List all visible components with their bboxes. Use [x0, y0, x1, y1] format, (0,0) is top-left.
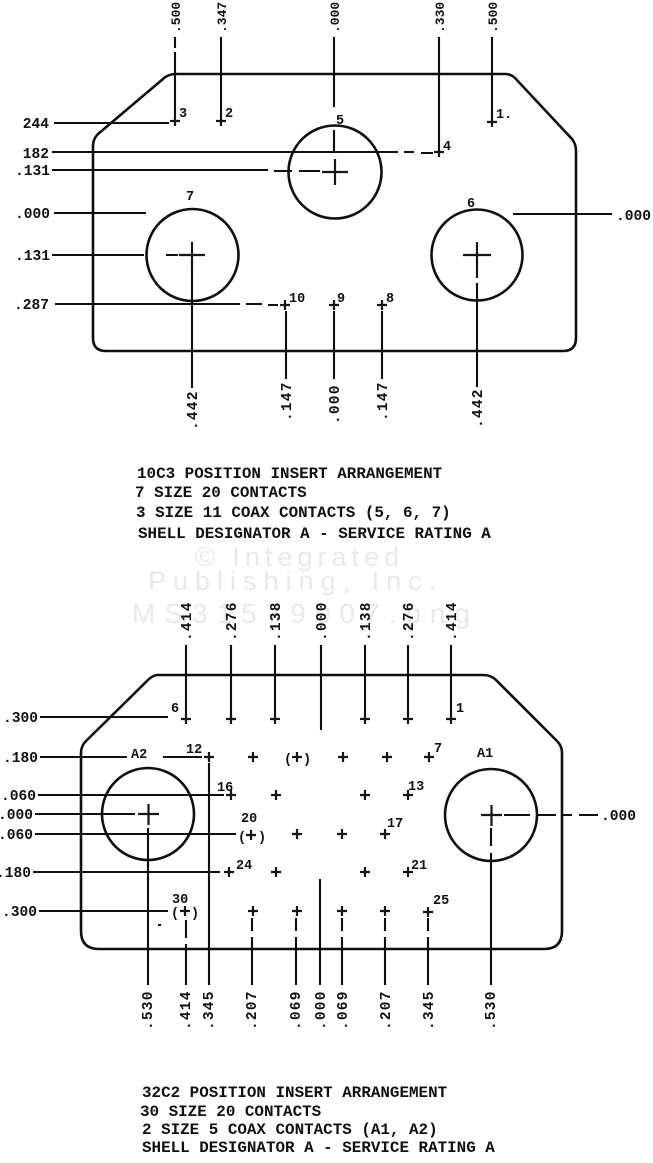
D1 contact 9 cross — [329, 300, 339, 310]
svg-text:6: 6 — [467, 197, 475, 212]
D1 bottom leader from circle 7 to .442 — [191, 268, 193, 388]
D1 bottom leader from contact 9 to .000 — [333, 311, 335, 379]
D1 left leader .287 to contact 10 — [55, 304, 278, 305]
svg-text:(: ( — [171, 907, 179, 922]
D1 contact 10 cross — [280, 300, 290, 310]
D2 bottom leader A1 to .530 — [490, 828, 492, 985]
D2 bottom leader A2 to .530 — [147, 828, 149, 985]
svg-text:.000: .000 — [0, 808, 33, 824]
D2 contact 8 cross — [382, 752, 392, 762]
svg-text:.500: .500 — [169, 2, 184, 33]
svg-text:.300: .300 — [2, 905, 37, 921]
svg-text:.180: .180 — [3, 751, 38, 767]
D2 contact 7 cross — [424, 752, 434, 762]
svg-text:(: ( — [284, 753, 292, 768]
svg-text:.069: .069 — [336, 990, 352, 1030]
svg-text:17: 17 — [387, 817, 403, 832]
stray scan dot — [158, 924, 161, 926]
D2 bottom leader .000 center — [319, 879, 321, 985]
svg-text:.000: .000 — [314, 990, 330, 1030]
svg-text:.530: .530 — [484, 990, 500, 1030]
svg-text:.287: .287 — [14, 298, 49, 314]
svg-text:9: 9 — [337, 292, 345, 307]
D1 bottom leader from contact 8 to .147 — [381, 311, 383, 379]
svg-text:8: 8 — [386, 292, 394, 307]
D2 contact 27 cross — [337, 906, 347, 916]
svg-text:.147: .147 — [280, 381, 296, 421]
D2 contact 21 cross — [403, 867, 413, 877]
svg-text:30 SIZE 20 CONTACTS: 30 SIZE 20 CONTACTS — [140, 1103, 322, 1121]
svg-text:.345: .345 — [422, 990, 438, 1030]
D1 contact 1 cross — [487, 117, 497, 127]
svg-text:7: 7 — [434, 742, 442, 757]
D1 top leader .000 center to circle 5 — [333, 37, 335, 153]
D2 contact 11 cross — [248, 752, 258, 762]
svg-text:.000: .000 — [616, 209, 651, 225]
svg-text:1.: 1. — [496, 108, 512, 123]
D2 contact 30 cross in parens — [180, 906, 190, 916]
svg-text:.147: .147 — [376, 381, 392, 421]
D1 top leader .500 left to contact 3 — [174, 37, 176, 116]
svg-text:.131: .131 — [15, 249, 50, 265]
svg-text:24: 24 — [236, 859, 252, 874]
D2 top leader .414 left — [185, 645, 187, 716]
svg-text:30: 30 — [172, 893, 188, 908]
D2 bottom leader contact 25 to .345 — [427, 918, 429, 985]
D2 contact 15 cross — [271, 790, 281, 800]
D1 right leader .000 from circle 6 — [513, 213, 612, 215]
D1 bottom leader from circle 6 to .442 — [476, 268, 478, 387]
D2 top leader .414 right — [450, 645, 452, 716]
svg-text:.347: .347 — [215, 2, 230, 33]
D1 shell outline — [93, 74, 576, 351]
D2 contact 9 cross — [338, 752, 348, 762]
D1 contact 8 cross — [377, 300, 387, 310]
D1 top leader .330 to contact 4 — [438, 37, 440, 147]
D2 left leader .060 upper — [38, 794, 224, 796]
D1 contact 2 cross — [216, 116, 226, 126]
svg-text:(: ( — [238, 831, 246, 846]
D2 contact 12 cross — [204, 752, 214, 762]
D2 coax A1 center cross — [481, 805, 502, 826]
svg-text:SHELL DESIGNATOR A - SERVICE R: SHELL DESIGNATOR A - SERVICE RATING A — [142, 1139, 495, 1157]
D2 contact 29 cross — [248, 906, 258, 916]
D2 contact 2 cross — [403, 714, 413, 724]
svg-text:.000: .000 — [15, 207, 50, 223]
D1 top leader .500 right to contact 1 — [491, 37, 493, 117]
D2 left leader .300 lower — [39, 910, 168, 912]
D2 contact 1 cross — [446, 714, 456, 724]
svg-text:3: 3 — [179, 107, 187, 122]
D1 left leader .131 to circle 7 center — [52, 254, 178, 256]
D1 coax contact 6 circle — [432, 210, 523, 301]
D2 bottom leader contact 30 to .414 — [185, 920, 187, 985]
D1 circle 6 center cross — [463, 242, 491, 268]
svg-text:.530: .530 — [141, 990, 157, 1030]
D2 contact 16 cross — [226, 790, 236, 800]
svg-text:.000: .000 — [328, 2, 343, 33]
D2 contact 13 cross — [403, 790, 413, 800]
svg-text:4: 4 — [443, 140, 451, 155]
D1 circle 7 center cross — [179, 242, 205, 268]
D2 contact 23 cross — [271, 867, 281, 877]
svg-text:5: 5 — [336, 114, 344, 129]
D1 contact 4 cross — [434, 147, 444, 157]
D1 left leader .131 to circle 5 center — [52, 170, 320, 171]
D2 coax A2 center cross — [138, 804, 159, 825]
svg-text:.000: .000 — [601, 809, 636, 825]
D2 top leader .276 left — [230, 645, 232, 716]
D2 contact 28 cross — [292, 906, 302, 916]
svg-text:.060: .060 — [1, 789, 36, 805]
D2 left leader .180 upper — [40, 756, 202, 758]
D2 coax contact A1 circle — [445, 769, 537, 861]
svg-text:3 SIZE 11 COAX CONTACTS (5, 6,: 3 SIZE 11 COAX CONTACTS (5, 6, 7) — [136, 504, 451, 522]
svg-text:): ) — [258, 831, 266, 846]
D2 contact 17 cross — [380, 829, 390, 839]
svg-text:.300: .300 — [3, 711, 38, 727]
svg-text:20: 20 — [241, 812, 257, 827]
svg-text:.207: .207 — [379, 990, 395, 1030]
svg-text:A2: A2 — [131, 748, 147, 763]
svg-text:7: 7 — [186, 190, 194, 205]
svg-text:182: 182 — [23, 147, 49, 163]
D2 bottom leader contact 28 to .069 — [295, 918, 297, 985]
svg-text:SHELL DESIGNATOR A - SERVICE R: SHELL DESIGNATOR A - SERVICE RATING A — [138, 525, 491, 543]
svg-text:.207: .207 — [245, 990, 261, 1030]
D1 coax contact 7 circle — [147, 209, 239, 301]
D1 coax contact 5 circle — [289, 126, 382, 219]
svg-text:): ) — [191, 907, 199, 922]
svg-text:2 SIZE 5 COAX CONTACTS (A1, A2: 2 SIZE 5 COAX CONTACTS (A1, A2) — [142, 1121, 438, 1139]
svg-text:25: 25 — [433, 894, 449, 909]
svg-text:.442: .442 — [186, 390, 202, 430]
D2 contact 19 cross — [292, 829, 302, 839]
svg-text:.500: .500 — [486, 2, 501, 33]
D1 circle 5 center cross — [322, 159, 348, 185]
D2 bottom leader contact 29 to .207 — [251, 918, 253, 985]
svg-text:A1: A1 — [477, 747, 493, 762]
D2 contact 22 cross — [360, 867, 370, 877]
svg-text:16: 16 — [217, 781, 233, 796]
D2 contact 24 cross — [224, 867, 234, 877]
D1 left leader .244 to contact 3 — [54, 122, 169, 124]
svg-text:.442: .442 — [471, 388, 487, 428]
svg-text:10: 10 — [289, 292, 305, 307]
D2 top leader .138 right — [364, 645, 366, 716]
D2 contact 6 cross — [181, 714, 191, 724]
D2 contact 26 cross — [380, 906, 390, 916]
D2 contact 18 cross — [337, 829, 347, 839]
svg-text:13: 13 — [408, 780, 424, 795]
svg-text:.138: .138 — [269, 601, 285, 641]
D2 contact 10 cross in parens — [292, 752, 302, 762]
svg-text:10C3 POSITION INSERT ARRANGEME: 10C3 POSITION INSERT ARRANGEMENT — [137, 465, 443, 483]
svg-text:.069: .069 — [289, 990, 305, 1030]
svg-text:.000: .000 — [328, 384, 344, 424]
svg-text:.414: .414 — [180, 601, 196, 641]
svg-text:244: 244 — [23, 117, 50, 133]
D2 contact 25 cross — [423, 907, 433, 917]
D2 contact 3 cross — [360, 714, 370, 724]
svg-text:.138: .138 — [359, 601, 375, 641]
D1 top leader .347 to contact 2 — [220, 37, 222, 116]
D2 contact 4 cross — [270, 714, 280, 724]
D2 right leader .000 from A1 — [504, 814, 598, 816]
D2 bottom leader contact 12 to .345 — [208, 763, 210, 985]
svg-text:7 SIZE 20 CONTACTS: 7 SIZE 20 CONTACTS — [135, 484, 307, 502]
D2 left leader .180 lower — [33, 871, 220, 873]
D1 bottom leader from contact 10 to .147 — [285, 311, 287, 379]
svg-text:.276: .276 — [402, 601, 418, 641]
D1 contact 3 cross — [170, 116, 180, 126]
D1 left leader .182 to contact 4 — [52, 152, 433, 153]
svg-text:.180: .180 — [0, 866, 31, 882]
svg-text:6: 6 — [171, 702, 179, 717]
svg-text:.345: .345 — [202, 990, 218, 1030]
D2 bottom leader contact 27 to .069 — [341, 918, 343, 985]
D2 coax contact A2 circle — [102, 768, 194, 860]
D2 contact 20 cross in parens — [246, 830, 256, 840]
svg-text:12: 12 — [186, 743, 202, 758]
svg-text:.060: .060 — [0, 828, 33, 844]
svg-text:Publishing, Inc.: Publishing, Inc. — [148, 566, 443, 596]
D2 top leader .138 left — [274, 645, 276, 716]
svg-text:21: 21 — [411, 859, 427, 874]
svg-text:.131: .131 — [15, 164, 50, 180]
svg-text:.330: .330 — [433, 2, 448, 33]
svg-text:32C2 POSITION INSERT ARRANGEME: 32C2 POSITION INSERT ARRANGEMENT — [142, 1084, 448, 1102]
svg-text:1: 1 — [456, 702, 464, 717]
D2 top leader .276 right — [407, 645, 409, 716]
svg-text:.276: .276 — [225, 601, 241, 641]
D2 top leader .000 center — [320, 645, 322, 730]
svg-text:): ) — [303, 753, 311, 768]
svg-text:2: 2 — [225, 107, 233, 122]
D2 left leader .000 — [35, 813, 135, 815]
svg-text:.414: .414 — [445, 601, 461, 641]
D2 left leader .300 upper — [40, 716, 168, 718]
svg-text:.000: .000 — [315, 601, 331, 641]
D2 left leader .060 lower — [35, 833, 236, 835]
D2 shell outline — [81, 675, 562, 949]
D2 bottom leader contact 26 to .207 — [384, 918, 386, 985]
D2 contact 5 cross — [226, 714, 236, 724]
svg-text:.414: .414 — [179, 990, 195, 1030]
D2 contact 14 cross — [360, 790, 370, 800]
D1 left leader .000 to circle 7 — [54, 212, 146, 214]
